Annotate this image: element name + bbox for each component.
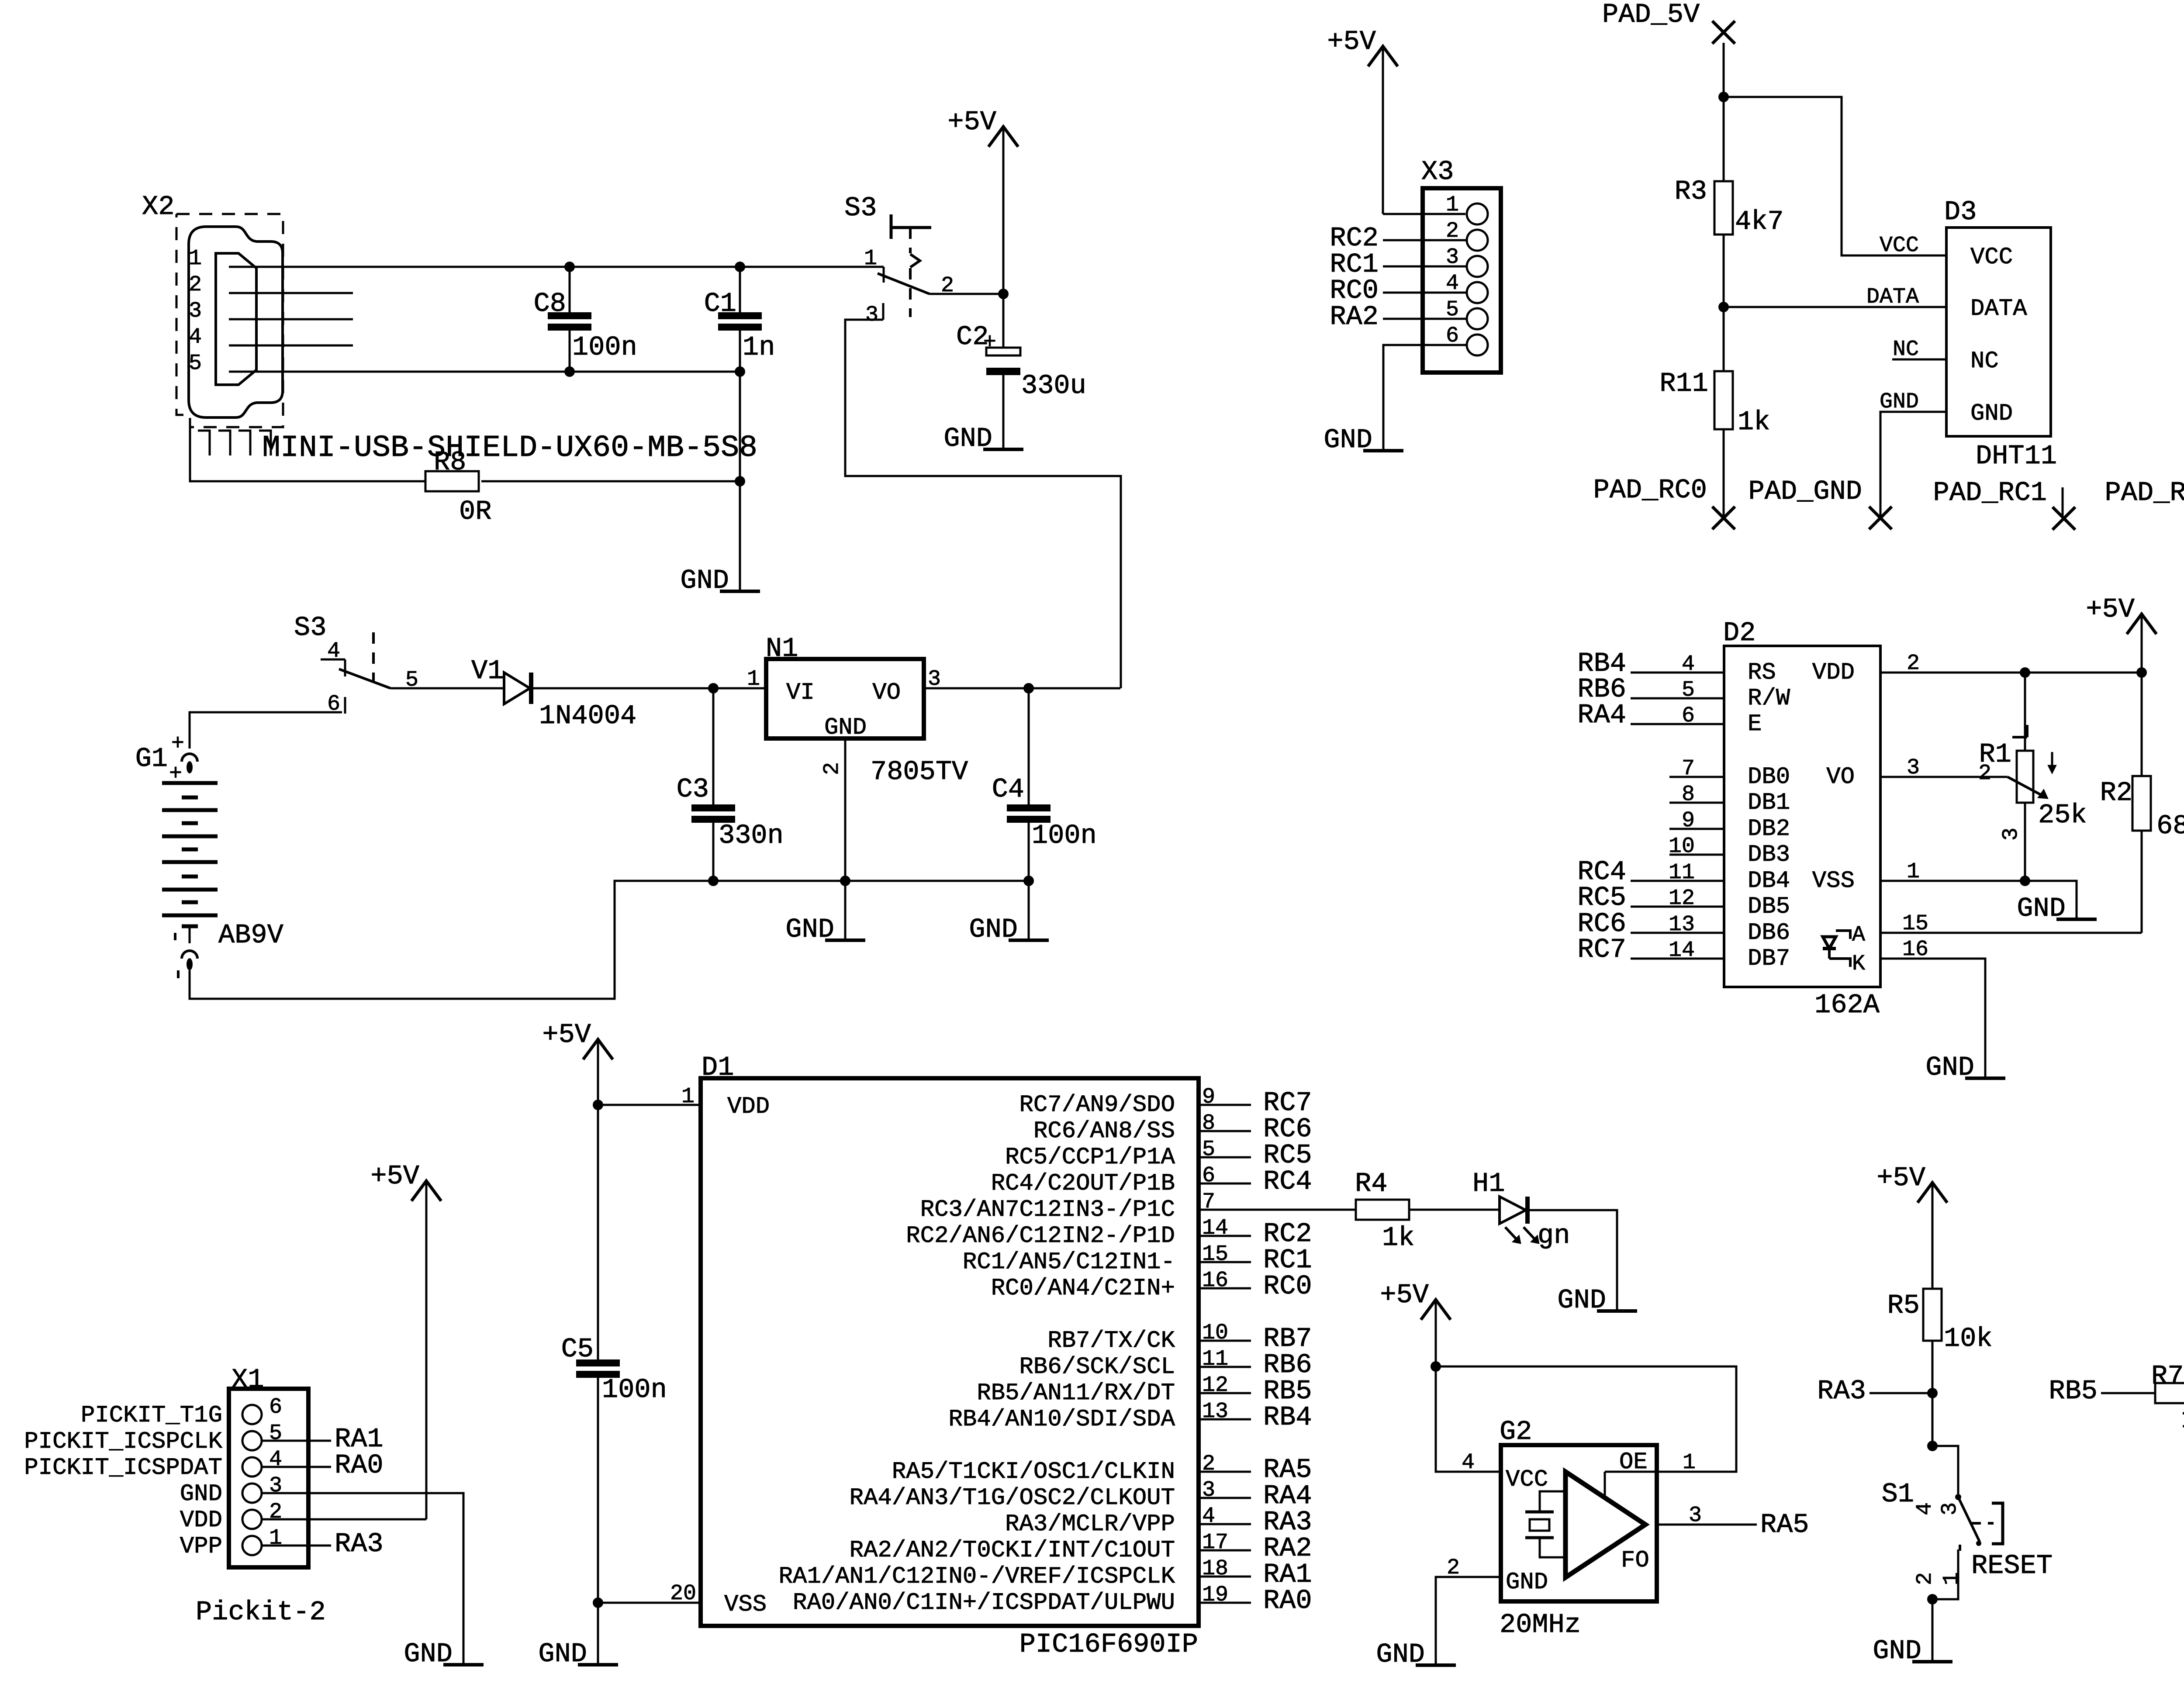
X3 pin 5 circle xyxy=(1467,308,1488,329)
svg-text:VDD: VDD xyxy=(727,1094,770,1120)
wire D2 VO to R1 wiper xyxy=(1880,776,2008,778)
svg-text:162A: 162A xyxy=(1814,990,1880,1021)
G2 pin 1 number xyxy=(1683,1450,1696,1475)
wire D3 GND to PAD_GND xyxy=(1880,412,1946,518)
sensor D3 box xyxy=(1946,228,2051,436)
D2 pin 16 number xyxy=(1902,937,1928,962)
svg-text:1: 1 xyxy=(189,246,202,271)
trimmer R1 wiper arrow xyxy=(2008,777,2048,799)
X2 pin number 5 xyxy=(189,351,202,376)
X1 pin 4 circle xyxy=(242,1457,262,1477)
junction N1 VO / C4 xyxy=(1023,683,1034,693)
S3a pin 1 number xyxy=(864,246,877,271)
wire X2 pin1 to S3 pin1 xyxy=(229,266,884,268)
svg-text:RB5/AN11/RX/DT: RB5/AN11/RX/DT xyxy=(977,1380,1175,1407)
G2 pin 2 number xyxy=(1447,1556,1460,1580)
D2 pin 7 DB0 xyxy=(1669,756,1790,790)
svg-text:RESET: RESET xyxy=(1971,1550,2053,1581)
S3b pin6 contact xyxy=(344,697,346,714)
oscillator G2 label xyxy=(1500,1416,1532,1447)
svg-text:R2: R2 xyxy=(2100,777,2132,808)
X1 pin number 2 xyxy=(269,1500,282,1525)
svg-text:S3: S3 xyxy=(844,193,877,224)
connector X2 mini-USB jack outer body xyxy=(189,227,283,417)
resistor R2 top wire xyxy=(2141,673,2143,776)
junction PAD_5V / R3 / VCC xyxy=(1718,92,1729,102)
wire G2 FO to RA5 xyxy=(1657,1524,1757,1526)
svg-text:GND: GND xyxy=(1925,1052,1974,1083)
svg-text:NC: NC xyxy=(1893,337,1919,362)
svg-text:DB5: DB5 xyxy=(1748,894,1790,920)
svg-text:DB0: DB0 xyxy=(1748,764,1790,790)
wire X1 pin4 to RA0 xyxy=(262,1466,331,1468)
svg-text:RA5/T1CKI/OSC1/CLKIN: RA5/T1CKI/OSC1/CLKIN xyxy=(892,1459,1175,1485)
X1 pin number 4 xyxy=(269,1447,282,1472)
wire S3a pin2 to +5V node xyxy=(930,293,1003,295)
wire D2 pin15 to R2 xyxy=(1880,932,2142,934)
svg-text:R7: R7 xyxy=(2151,1361,2184,1392)
sensor D3 value DHT11 xyxy=(1976,441,2057,472)
svg-text:RA0: RA0 xyxy=(1263,1585,1312,1616)
X1 net label RA0 xyxy=(335,1450,384,1481)
G2 pin name FO xyxy=(1621,1547,1649,1574)
ground at D2 VSS xyxy=(2017,893,2097,924)
X2 shield pin mark xyxy=(198,431,210,455)
svg-text:S1: S1 xyxy=(1882,1479,1914,1510)
svg-text:RC2/AN6/C12IN2-/P1D: RC2/AN6/C12IN2-/P1D xyxy=(906,1223,1175,1249)
ground under S1 xyxy=(1873,1635,1952,1666)
ground at D2 pin16 xyxy=(1925,1052,2005,1083)
svg-text:GND: GND xyxy=(1873,1635,1921,1666)
svg-text:DATA: DATA xyxy=(1970,296,2027,322)
X3 pin 6 circle xyxy=(1467,335,1488,355)
svg-text:R4: R4 xyxy=(1355,1168,1387,1199)
svg-text:A: A xyxy=(1852,923,1865,948)
junction R1 / VSS xyxy=(2020,876,2030,886)
wire C4 GND symbol xyxy=(1028,881,1030,940)
svg-text:GND: GND xyxy=(1324,424,1372,455)
svg-text:VSS: VSS xyxy=(1812,868,1855,894)
X1 pin 2 circle xyxy=(242,1510,262,1529)
battery G1 plus sign top xyxy=(171,731,184,756)
wire X3 pin6 to GND xyxy=(1383,345,1467,451)
D1 pin 17 RA2/AN2/T0CKI/INT/C1OUT xyxy=(850,1530,1312,1564)
svg-text:6: 6 xyxy=(269,1395,282,1420)
resistor R3 xyxy=(1675,97,1784,237)
connector X2 mini-USB jack inner body xyxy=(216,253,256,385)
svg-text:RA0: RA0 xyxy=(335,1450,384,1481)
wire R11 to PAD_RC0 xyxy=(1723,429,1725,518)
svg-text:RA1/AN1/C12IN0-/VREF/ICSPCLK: RA1/AN1/C12IN0-/VREF/ICSPCLK xyxy=(779,1563,1175,1590)
S3a pin3 contact xyxy=(882,303,885,320)
junction V1 / C3 / N1 xyxy=(708,683,719,693)
wire G2 GND xyxy=(1436,1577,1501,1665)
svg-text:RB6/SCK/SCL: RB6/SCK/SCL xyxy=(1019,1354,1175,1380)
trimmer R1 xyxy=(1978,725,2033,841)
X2 pin number 4 xyxy=(189,325,202,350)
connector X1 value Pickit-2 xyxy=(196,1597,326,1628)
D3 outer pin label GND xyxy=(1880,390,1919,414)
svg-text:OE: OE xyxy=(1619,1449,1648,1476)
svg-text:GND: GND xyxy=(1880,390,1919,414)
svg-text:D3: D3 xyxy=(1944,197,1977,228)
svg-text:DB2: DB2 xyxy=(1748,816,1790,842)
svg-text:G1: G1 xyxy=(135,743,168,774)
LED H1 light arrows xyxy=(1505,1227,1539,1244)
junction S1 top xyxy=(1927,1441,1938,1451)
pad PAD_RC1 stub xyxy=(2062,487,2064,518)
pad PAD_GND label xyxy=(1749,476,1862,507)
svg-text:RC3/AN7C12IN3-/P1C: RC3/AN7C12IN3-/P1C xyxy=(920,1197,1175,1223)
wire RC1 to X3 xyxy=(1383,266,1467,268)
switch S3a label xyxy=(844,193,877,224)
wire battery minus to GND rail xyxy=(190,881,1029,999)
junction VDD / +5V xyxy=(2136,667,2147,678)
svg-text:AB9V: AB9V xyxy=(218,920,283,951)
wire R8 to GND net xyxy=(481,480,740,483)
svg-text:+5V: +5V xyxy=(2086,594,2135,625)
svg-text:PAD_RC2: PAD_RC2 xyxy=(2105,477,2184,508)
svg-text:GND: GND xyxy=(180,1481,222,1508)
S1 blade xyxy=(1958,1497,1981,1546)
svg-text:1n: 1n xyxy=(743,332,775,363)
N1 pin name VO xyxy=(872,680,901,706)
X1 pin label GND xyxy=(180,1481,222,1508)
X1 pin label VPP xyxy=(180,1533,222,1560)
svg-text:RB5: RB5 xyxy=(2049,1376,2098,1407)
wire RA3 to S1 node xyxy=(1870,1392,1932,1394)
battery G1 label xyxy=(135,743,168,774)
connector X3 label xyxy=(1421,156,1454,187)
D2 value 162A xyxy=(1814,990,1880,1021)
svg-text:4: 4 xyxy=(189,325,202,350)
svg-text:C1: C1 xyxy=(704,288,736,319)
svg-text:330n: 330n xyxy=(719,820,784,851)
wire C5 bottom xyxy=(597,1378,599,1603)
wire to D3 VCC xyxy=(1724,97,1946,255)
D1 pin 19 RA0/AN0/C1IN+/ICSPDAT/ULPWU xyxy=(793,1583,1312,1616)
+5V symbol at D2 xyxy=(2086,594,2156,673)
svg-text:RA0/AN0/C1IN+/ICSPDAT/ULPWU: RA0/AN0/C1IN+/ICSPDAT/ULPWU xyxy=(793,1590,1175,1616)
wire RA2 to X3 xyxy=(1383,318,1467,320)
D2 backlight LED symbol xyxy=(1823,923,1865,976)
svg-text:1: 1 xyxy=(1939,1572,1964,1585)
svg-text:RC7: RC7 xyxy=(1577,934,1626,965)
svg-text:RB4: RB4 xyxy=(1263,1402,1312,1433)
svg-text:3: 3 xyxy=(865,303,878,328)
svg-text:VPP: VPP xyxy=(180,1533,222,1560)
X3 net label RC0 xyxy=(1330,275,1379,306)
wire R3 to DATA node xyxy=(1723,235,1725,307)
D2 pin 3 number xyxy=(1907,756,1920,780)
D1 pin 2 RA5/T1CKI/OSC1/CLKIN xyxy=(892,1452,1312,1485)
resistor R5 xyxy=(1887,1289,1993,1354)
svg-text:7805TV: 7805TV xyxy=(871,756,968,787)
svg-text:GND: GND xyxy=(538,1639,587,1670)
svg-text:1k: 1k xyxy=(1738,407,1770,438)
svg-text:RA3: RA3 xyxy=(335,1528,384,1559)
G2 pin name OE xyxy=(1619,1449,1648,1476)
wire X2 pin3 stub xyxy=(229,318,353,321)
svg-text:gn: gn xyxy=(1538,1220,1570,1251)
resistor R4 xyxy=(1355,1168,1414,1253)
IC D1 value PIC16F690IP xyxy=(1019,1629,1198,1660)
svg-text:GND: GND xyxy=(969,914,1018,945)
ground under C2 xyxy=(943,423,1023,454)
D2 pin 1 number xyxy=(1907,859,1920,884)
svg-text:PAD_RC0: PAD_RC0 xyxy=(1593,475,1707,506)
capacitor C3 xyxy=(677,774,784,851)
X2 shield pin mark xyxy=(259,431,271,455)
S1 pin 4 number xyxy=(1913,1502,1938,1515)
svg-text:+5V: +5V xyxy=(542,1019,591,1050)
wire C2 bottom xyxy=(1002,375,1005,449)
wire C3 bottom xyxy=(712,823,715,881)
wire R4 to H1 xyxy=(1409,1209,1500,1211)
svg-text:+5V: +5V xyxy=(1380,1280,1429,1311)
svg-text:PAD_GND: PAD_GND xyxy=(1749,476,1862,507)
X3 pin number 3 xyxy=(1446,245,1459,270)
svg-text:330u: 330u xyxy=(1021,370,1086,401)
svg-text:1k: 1k xyxy=(2181,1404,2184,1435)
svg-text:1: 1 xyxy=(1683,1450,1696,1475)
X1 pin 1 circle xyxy=(242,1536,262,1555)
capacitor C4 xyxy=(992,774,1097,851)
battery G1 plus sign xyxy=(169,762,182,787)
G2 pin 4 number xyxy=(1462,1450,1475,1475)
D1 inner pin name VSS xyxy=(724,1591,767,1618)
junction C8 / pin5 wire xyxy=(564,366,575,377)
svg-text:100n: 100n xyxy=(1032,820,1097,851)
svg-text:25k: 25k xyxy=(2038,800,2087,831)
net label RB5 xyxy=(2049,1376,2098,1407)
D1 pin 14 RC2/AN6/C12IN2-/P1D xyxy=(906,1216,1312,1249)
wire D2 VDD to +5V xyxy=(1880,672,2142,674)
svg-text:C3: C3 xyxy=(677,774,709,805)
pad PAD_5V label xyxy=(1602,0,1700,30)
X2 shield pin mark xyxy=(218,431,230,455)
junction S1 bottom xyxy=(1927,1594,1938,1604)
D2 pin 12 DB5 xyxy=(1577,882,1790,920)
D1 pin 7 RC3/AN7C12IN3-/P1C xyxy=(920,1190,1215,1223)
svg-text:VDD: VDD xyxy=(180,1507,222,1534)
N1 pin name VI xyxy=(786,680,815,706)
X2 pin number 1 xyxy=(189,246,202,271)
D2 inner pin name VDD xyxy=(1812,659,1855,686)
D1 pin 18 RA1/AN1/C12IN0-/VREF/ICSPCLK xyxy=(779,1556,1312,1590)
svg-text:RA4: RA4 xyxy=(1577,700,1626,731)
battery G1 cells xyxy=(162,783,218,915)
connector X3 box xyxy=(1423,188,1501,373)
S1 top contact xyxy=(1932,1446,1961,1500)
wire S1 to GND xyxy=(1932,1599,1934,1662)
diode V1 xyxy=(471,656,636,731)
S1 pin 2 number xyxy=(1913,1572,1938,1585)
wire X1 pin2 to +5V xyxy=(262,1518,426,1521)
wire X1 pin3 to GND xyxy=(262,1493,463,1665)
pad PAD_RC1 cross xyxy=(2053,507,2075,530)
X1 pin label VDD xyxy=(180,1507,222,1534)
G2 OE tap xyxy=(1604,1472,1606,1497)
S1 pin 3 number xyxy=(1938,1502,1963,1515)
svg-text:C8: C8 xyxy=(534,288,566,319)
X3 pin 2 circle xyxy=(1467,230,1488,251)
svg-text:VO: VO xyxy=(872,680,901,706)
D1 pin 12 RB5/AN11/RX/DT xyxy=(977,1373,1312,1407)
wire V1 to N1 VI xyxy=(531,687,713,690)
D3 inner pin name NC xyxy=(1970,348,1999,375)
capacitor C1 xyxy=(704,288,775,363)
svg-text:MINI-USB-SHIELD-UX60-MB-5S8: MINI-USB-SHIELD-UX60-MB-5S8 xyxy=(262,431,757,466)
wire +5V down to G2 VCC xyxy=(1436,1366,1501,1472)
ground under X3 xyxy=(1324,424,1403,455)
svg-text:X2: X2 xyxy=(142,191,174,222)
G2 pin name VCC xyxy=(1506,1466,1548,1493)
svg-text:RC5/CCP1/P1A: RC5/CCP1/P1A xyxy=(1005,1144,1175,1171)
X2 shield pin mark xyxy=(238,431,250,455)
svg-text:1: 1 xyxy=(269,1526,282,1551)
svg-text:H1: H1 xyxy=(1472,1168,1505,1199)
wire C4 top xyxy=(1028,688,1030,804)
X3 pin 1 circle xyxy=(1467,204,1488,224)
svg-text:DB6: DB6 xyxy=(1748,920,1790,946)
svg-text:1N4004: 1N4004 xyxy=(539,700,636,731)
display D2 label xyxy=(1723,618,1755,649)
svg-text:X3: X3 xyxy=(1421,156,1454,187)
D3 outer pin label NC xyxy=(1893,337,1919,362)
N1 value 7805TV xyxy=(871,756,968,787)
resistor R2 xyxy=(2100,776,2184,842)
switch S3a dashed link xyxy=(910,228,920,317)
wire X2 pin4 stub xyxy=(229,345,353,347)
svg-text:3: 3 xyxy=(269,1473,282,1498)
X2 pin number 2 xyxy=(189,273,202,297)
svg-text:PAD_5V: PAD_5V xyxy=(1602,0,1700,30)
junction DATA node xyxy=(1718,302,1729,312)
wire C5 top xyxy=(597,1105,599,1359)
svg-text:GND: GND xyxy=(1970,400,2013,427)
S1 bottom contact xyxy=(1932,1545,1960,1599)
X1 net label RA3 xyxy=(335,1528,384,1559)
svg-text:R/W: R/W xyxy=(1748,685,1790,712)
wire C1 top xyxy=(739,267,741,312)
svg-text:RB7/TX/CK: RB7/TX/CK xyxy=(1047,1328,1175,1354)
X1 pin number 5 xyxy=(269,1421,282,1446)
X3 pin number 5 xyxy=(1446,297,1459,322)
pad PAD_GND cross xyxy=(1869,507,1892,529)
D2 pin 6 E xyxy=(1577,700,1762,738)
G2 buffer triangle xyxy=(1565,1472,1645,1577)
junction X2 pin1 / C1 xyxy=(735,262,745,272)
svg-text:+5V: +5V xyxy=(947,107,996,138)
resistor R8 xyxy=(425,447,491,527)
svg-text:E: E xyxy=(1748,711,1762,738)
N1 pin 1 number xyxy=(747,667,760,692)
+5V symbol at D1 VDD xyxy=(542,1019,613,1105)
D3 inner pin name GND xyxy=(1970,400,2013,427)
svg-text:RC0: RC0 xyxy=(1263,1271,1312,1302)
+5V symbol at G2 xyxy=(1380,1280,1451,1366)
svg-text:100n: 100n xyxy=(602,1374,667,1405)
D2 pin 11 DB4 xyxy=(1577,856,1790,894)
wire N1 VO to C4/S3 xyxy=(924,687,1120,690)
svg-text:RA2: RA2 xyxy=(1330,301,1379,332)
wire C1 bottom to GND xyxy=(739,331,741,591)
svg-text:C5: C5 xyxy=(561,1334,594,1365)
display D2 box xyxy=(1724,646,1880,987)
X1 pin number 6 xyxy=(269,1395,282,1420)
wire X1 pin1 to RA3 xyxy=(262,1545,331,1547)
D3 outer pin label DATA xyxy=(1866,285,1919,310)
svg-text:1: 1 xyxy=(681,1084,695,1109)
D2 pin 15 number xyxy=(1902,911,1928,936)
svg-text:VCC: VCC xyxy=(1880,233,1919,258)
svg-text:+5V: +5V xyxy=(1876,1163,1925,1194)
resistor R11 xyxy=(1659,307,1770,438)
svg-text:C4: C4 xyxy=(992,774,1024,805)
svg-text:R3: R3 xyxy=(1675,176,1707,207)
capacitor C8 xyxy=(534,288,637,363)
wire D1 VSS xyxy=(598,1602,701,1604)
svg-text:VCC: VCC xyxy=(1506,1466,1548,1493)
svg-text:10k: 10k xyxy=(1944,1323,1993,1354)
svg-text:GND: GND xyxy=(680,565,729,596)
X3 pin number 2 xyxy=(1446,219,1459,244)
regulator N1 box xyxy=(766,659,924,738)
wire X2 pin5 to C1 xyxy=(229,371,740,373)
wire C2 top xyxy=(1002,294,1005,348)
X2 value MINI-USB-SHIELD-UX60-MB-5S8 xyxy=(262,431,757,466)
svg-text:PAD_RC1: PAD_RC1 xyxy=(1933,477,2047,508)
D1 pin 16 RC0/AN4/C2IN+ xyxy=(991,1268,1312,1302)
wire D2 VSS to GND xyxy=(1880,881,2077,919)
wire C8 bottom xyxy=(569,331,571,372)
svg-text:VCC: VCC xyxy=(1970,244,2013,271)
wire S3b pin5 to V1 xyxy=(390,687,504,690)
X3 net label RC2 xyxy=(1330,223,1379,254)
N1 pin 3 number xyxy=(928,667,941,692)
wire X1 pin5 to RA1 xyxy=(262,1440,331,1442)
X1 pin 5 circle xyxy=(242,1431,262,1450)
svg-text:GND: GND xyxy=(1557,1285,1606,1316)
G2 crystal xyxy=(1525,1491,1565,1557)
junction S3a pin2 / C2 xyxy=(998,289,1009,299)
D1 pin 5 RC5/CCP1/P1A xyxy=(1005,1137,1312,1171)
svg-text:V1: V1 xyxy=(471,656,504,687)
svg-text:2: 2 xyxy=(269,1500,282,1525)
svg-text:RC4/C2OUT/P1B: RC4/C2OUT/P1B xyxy=(991,1170,1175,1197)
svg-text:PICKIT_ICSPDAT: PICKIT_ICSPDAT xyxy=(24,1455,222,1481)
svg-text:NC: NC xyxy=(1970,348,1999,375)
D2 pin 9 DB2 xyxy=(1669,808,1790,842)
X3 pin 4 circle xyxy=(1467,282,1488,303)
wire D2 pin16 to GND xyxy=(1880,959,1985,1078)
LED H1 xyxy=(1472,1168,1527,1224)
D2 pin 8 DB1 xyxy=(1669,782,1790,816)
svg-text:3: 3 xyxy=(189,299,202,324)
svg-text:1k: 1k xyxy=(1382,1222,1414,1253)
S1 actuator xyxy=(1971,1503,2003,1544)
pad PAD_RC2 label xyxy=(2105,477,2184,508)
battery G1 value AB9V xyxy=(218,920,283,951)
svg-text:4k7: 4k7 xyxy=(1735,206,1784,237)
wire X2 pin2 stub xyxy=(229,292,353,294)
connector X1 label xyxy=(232,1364,264,1395)
+5V symbol at X3 xyxy=(1327,26,1398,214)
D1 pin 8 RC6/AN8/SS xyxy=(1033,1111,1312,1145)
G2 pin name GND xyxy=(1506,1569,1548,1596)
ground under N1 xyxy=(785,914,865,945)
